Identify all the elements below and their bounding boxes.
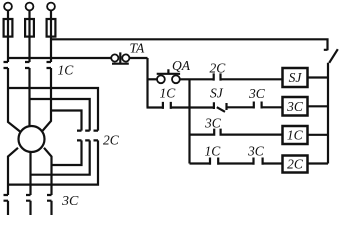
svg-text:3C: 3C (248, 86, 266, 101)
svg-text:1C: 1C (58, 63, 75, 78)
svg-text:1C: 1C (160, 86, 177, 101)
svg-text:TA: TA (130, 41, 146, 56)
svg-text:1C: 1C (205, 144, 222, 159)
svg-text:2C: 2C (287, 156, 304, 171)
svg-text:3C: 3C (247, 144, 265, 159)
svg-text:1C: 1C (287, 128, 304, 143)
svg-text:3C: 3C (204, 116, 222, 131)
svg-text:3C: 3C (61, 194, 79, 209)
svg-text:QA: QA (172, 58, 191, 73)
svg-text:SJ: SJ (289, 70, 303, 85)
svg-text:2C: 2C (103, 133, 120, 148)
svg-text:2C: 2C (210, 61, 227, 76)
svg-text:3C: 3C (286, 99, 304, 114)
svg-text:SJ: SJ (210, 86, 224, 101)
